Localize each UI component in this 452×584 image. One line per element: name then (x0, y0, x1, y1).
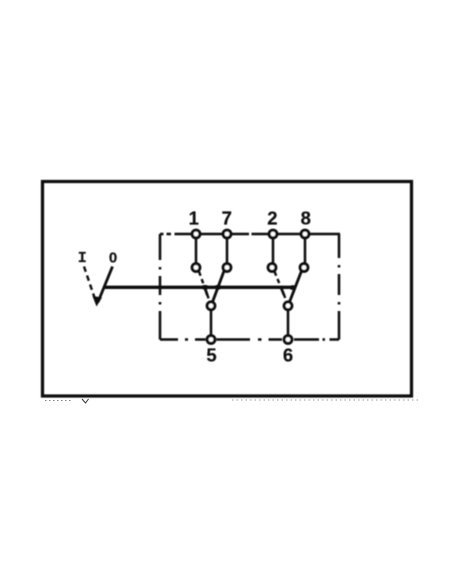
svg-text:I: I (78, 250, 87, 267)
svg-text:5: 5 (206, 345, 216, 366)
svg-text:1: 1 (189, 208, 199, 229)
svg-text:2: 2 (267, 208, 277, 229)
svg-text:0: 0 (109, 250, 117, 267)
svg-text:7: 7 (222, 208, 232, 229)
svg-text:8: 8 (301, 208, 311, 229)
svg-text:6: 6 (283, 345, 293, 366)
